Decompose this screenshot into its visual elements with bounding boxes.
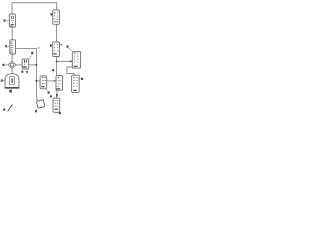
node D junction — [56, 94, 58, 96]
box2 valve unit top-right — [53, 10, 60, 24]
figure reference arrow — [3, 104, 12, 111]
wire box4 to center node — [29, 64, 37, 66]
wire top bus — [12, 3, 57, 14]
wire box5 to box10 — [56, 57, 58, 76]
label box10 top-left — [52, 69, 54, 71]
arrowhead into box8 — [70, 60, 72, 62]
node C junction — [56, 61, 58, 63]
valve V2 rotated square bottom — [36, 100, 44, 108]
node A junction — [35, 64, 37, 66]
label box2 — [50, 13, 52, 15]
node B junction — [35, 80, 37, 82]
box10 center-right unit — [56, 76, 63, 91]
wire box3 to valve V1 — [11, 54, 13, 61]
wire valve V1 to pump — [11, 69, 13, 74]
box1 valve unit top-left — [9, 14, 15, 27]
wire box6 to box10 — [47, 80, 56, 82]
box9 right lower unit — [72, 75, 80, 92]
wire box10 to box11 — [56, 90, 58, 98]
pump M dome — [5, 74, 20, 89]
valve V1 diamond with circle — [8, 61, 16, 69]
wire box3 right to center vertical — [16, 49, 38, 101]
label box6 — [46, 88, 50, 94]
label box5 right — [61, 44, 63, 46]
label box11 top-left — [50, 95, 52, 97]
wire center node to box6 — [36, 80, 40, 82]
arrowhead into box10 — [54, 80, 56, 82]
wire node to box8 upper pin — [57, 60, 72, 62]
box4 small unit — [22, 59, 29, 69]
label valve V1 — [2, 64, 8, 66]
wire box8 lower pin loop to box9 — [67, 67, 74, 75]
box11 bottom unit — [53, 98, 60, 112]
box3 filter — [10, 40, 16, 54]
wire box2 to box5 — [56, 24, 58, 42]
label box5 left — [50, 44, 52, 46]
label box11 bottom — [58, 112, 61, 114]
label box1 — [3, 19, 9, 21]
label box9 — [79, 78, 83, 80]
box5 middle valve unit — [53, 42, 60, 57]
arrowhead into box11 — [56, 96, 58, 98]
wire box1 to box3 — [11, 27, 13, 40]
label pump left — [1, 80, 5, 82]
label below box4 — [21, 71, 28, 73]
wire valve V1 to box4 — [16, 64, 22, 66]
label box3 — [5, 45, 10, 47]
box6 center unit — [40, 76, 47, 89]
label box8 with lead — [66, 45, 71, 50]
label pump bottom — [9, 89, 12, 93]
label near wire corner (15) — [28, 47, 39, 59]
box8 right upper unit — [72, 51, 80, 68]
label valve V2 — [35, 109, 37, 112]
